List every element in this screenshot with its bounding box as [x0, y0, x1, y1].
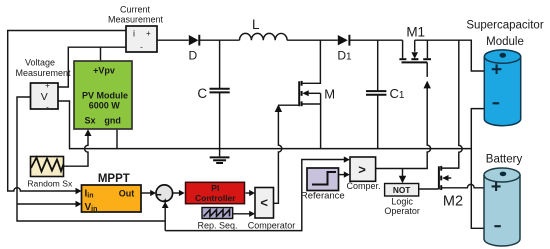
svg-text:gnd: gnd	[104, 115, 121, 125]
svg-text:D1: D1	[337, 49, 352, 63]
svg-text:Supercapacitor: Supercapacitor	[466, 19, 544, 31]
svg-text:Sx: Sx	[84, 115, 95, 125]
svg-text:Comperator: Comperator	[248, 220, 296, 230]
svg-text:Module: Module	[486, 36, 524, 48]
svg-text:+Vpv: +Vpv	[93, 66, 115, 76]
svg-text:Current: Current	[120, 4, 151, 14]
svg-text:D: D	[188, 49, 197, 63]
svg-text:L: L	[252, 17, 260, 32]
svg-text:+: +	[146, 29, 151, 38]
svg-text:Controller: Controller	[195, 193, 236, 203]
svg-text:Out: Out	[119, 188, 135, 198]
svg-text:Voltage: Voltage	[25, 58, 55, 68]
svg-text:>: >	[358, 162, 366, 177]
svg-text:Referance: Referance	[301, 191, 345, 202]
svg-text:Measurement: Measurement	[108, 15, 164, 25]
svg-text:C: C	[197, 86, 207, 101]
svg-text:Operator: Operator	[384, 206, 420, 216]
svg-text:M1: M1	[406, 24, 425, 39]
svg-text:V: V	[41, 91, 48, 103]
svg-text:6000 W: 6000 W	[89, 101, 121, 111]
svg-text:MPPT: MPPT	[98, 173, 130, 185]
svg-text:PI: PI	[211, 183, 219, 193]
svg-text:Measurement: Measurement	[15, 68, 71, 78]
svg-text:-: -	[46, 103, 49, 112]
svg-text:i: i	[133, 29, 135, 39]
svg-text:Logic: Logic	[391, 197, 413, 207]
svg-text:M2: M2	[443, 194, 463, 210]
svg-text:<: <	[260, 195, 268, 210]
svg-text:Comper.: Comper.	[346, 181, 380, 191]
svg-text:Battery: Battery	[486, 153, 523, 165]
svg-text:M: M	[324, 87, 335, 102]
svg-text:+: +	[45, 81, 50, 90]
svg-text:Random Sx: Random Sx	[27, 178, 73, 188]
svg-text:Rep. Seq.: Rep. Seq.	[197, 220, 237, 230]
svg-text:NOT: NOT	[393, 185, 411, 195]
svg-text:PV Module: PV Module	[82, 90, 128, 100]
svg-text:-: -	[140, 43, 143, 52]
